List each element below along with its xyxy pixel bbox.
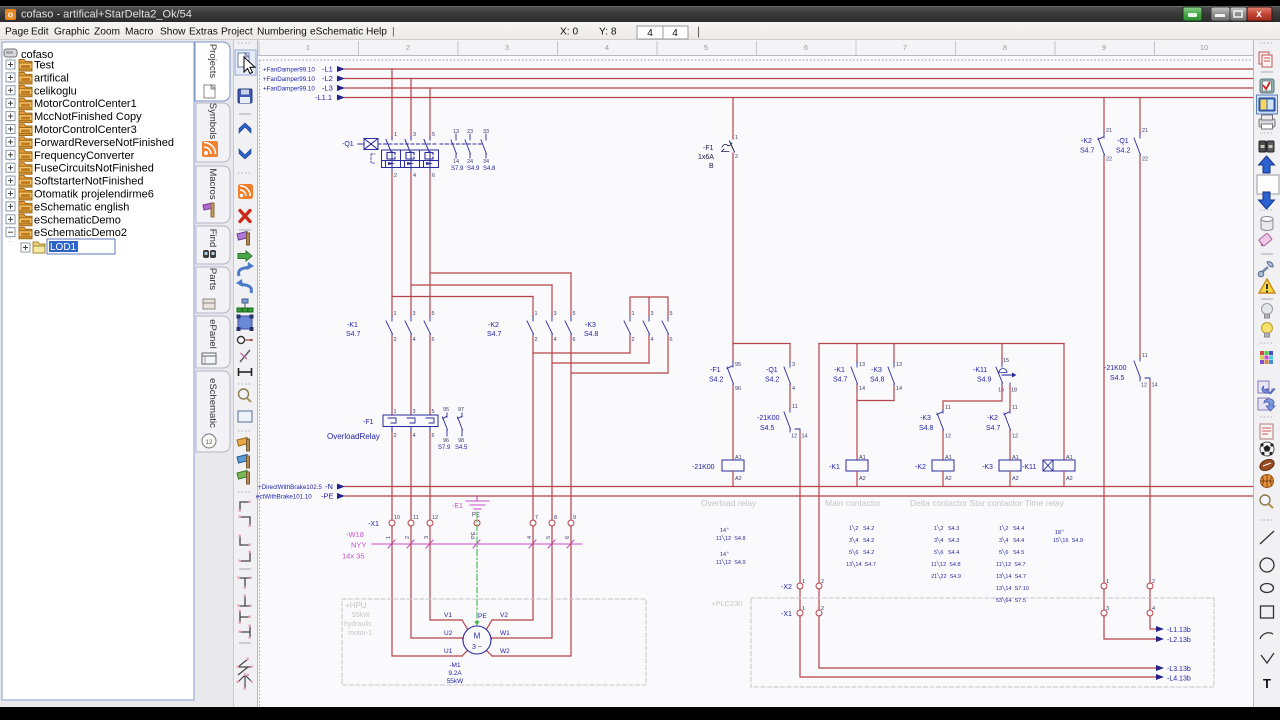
svg-text:1: 1 (802, 606, 805, 612)
svg-text:-L4.13b: -L4.13b (1167, 676, 1191, 683)
edit box with selected text LOD1 (47, 239, 115, 254)
flag orange (237, 438, 249, 447)
svg-text:2: 2 (406, 43, 410, 52)
shape tools (1260, 531, 1274, 544)
svg-text:3: 3 (792, 362, 795, 368)
thermal box (382, 150, 439, 168)
overload relay F1 (383, 413, 463, 436)
svg-text:53╲64 S7.5: 53╲64 S7.5 (996, 596, 1026, 604)
window buttons (1183, 7, 1202, 21)
wires K2 down to X1 (532, 336, 534, 520)
svg-text:5: 5 (546, 536, 552, 539)
magnifier (1260, 495, 1270, 505)
svg-text:13: 13 (896, 362, 902, 368)
branch K1 coil (856, 344, 858, 363)
svg-text:2: 2 (394, 173, 397, 179)
svg-text:Y: 8: Y: 8 (599, 27, 617, 38)
magnifier (239, 389, 249, 399)
svg-text:10: 10 (1200, 43, 1208, 52)
svg-text:-K1: -K1 (834, 367, 845, 374)
svg-text:-F1: -F1 (710, 367, 721, 374)
svg-text:6: 6 (432, 173, 435, 179)
svg-text:MccNotFinished Copy: MccNotFinished Copy (34, 111, 142, 123)
svg-text:22: 22 (1142, 157, 1148, 163)
svg-text:A2: A2 (1012, 476, 1019, 482)
terminal X2/X1 right pair (1101, 583, 1153, 616)
svg-text:eSchematicDemo2: eSchematicDemo2 (34, 227, 127, 239)
svg-text:13╲14 S7.10: 13╲14 S7.10 (996, 584, 1029, 592)
wire L3 to Q1 pin5 (429, 88, 431, 137)
aux contacts (443, 413, 463, 436)
svg-text:W1: W1 (500, 630, 510, 637)
coil K1 (846, 460, 868, 471)
svg-text:-Q1: -Q1 (766, 367, 778, 374)
svg-text:14: 14 (802, 434, 808, 440)
svg-text:5: 5 (432, 409, 435, 415)
svg-text:2: 2 (821, 579, 824, 585)
svg-text:A1: A1 (735, 455, 742, 461)
tree guide dotted line (9, 58, 11, 242)
svg-text:3: 3 (554, 311, 557, 317)
svg-text:3╲4 S4.4: 3╲4 S4.4 (999, 536, 1024, 544)
wire to K2 coil (942, 431, 944, 460)
svg-text:Edit: Edit (31, 27, 49, 38)
motor breaker Q1 (358, 137, 483, 172)
HPU dashed box (342, 599, 646, 685)
purple flag (237, 232, 249, 241)
svg-text:S4.8: S4.8 (483, 166, 496, 172)
svg-text:-F1: -F1 (363, 419, 374, 426)
contact K11 15-16/18 timed (996, 363, 1012, 386)
ruler (258, 40, 1253, 55)
svg-text:Overload relay: Overload relay (701, 498, 757, 508)
svg-text:-K3: -K3 (920, 415, 931, 422)
svg-text:11: 11 (413, 515, 419, 521)
svg-text:+HPU: +HPU (345, 601, 367, 610)
svg-text:3: 3 (413, 132, 416, 138)
svg-text:Help: Help (366, 27, 387, 38)
svg-text:21╲22 S4.9: 21╲22 S4.9 (931, 572, 961, 580)
dashed trip link (371, 154, 375, 163)
svg-text:1: 1 (306, 43, 310, 52)
svg-text:6: 6 (573, 337, 576, 343)
svg-text:5╲6 S4.2: 5╲6 S4.2 (849, 548, 874, 556)
svg-text:5: 5 (432, 132, 435, 138)
svg-text:34: 34 (483, 159, 489, 165)
svg-text:12: 12 (945, 434, 951, 440)
pin (240, 350, 250, 362)
svg-text:-K3: -K3 (982, 464, 993, 471)
svg-text:S4.7: S4.7 (487, 331, 502, 338)
svg-text:4: 4 (413, 173, 416, 179)
bus L1.1 (345, 97, 1253, 99)
org tree green (242, 299, 248, 303)
svg-text:13: 13 (453, 129, 459, 135)
right branch: Q1 aux 21-22 (1139, 98, 1141, 134)
svg-text:Otomatik projelendirme6: Otomatik projelendirme6 (34, 189, 154, 201)
Projects tab (active) (195, 42, 230, 101)
ePanel tab (196, 316, 230, 368)
svg-text:-L3.13b: -L3.13b (1167, 666, 1191, 673)
corner icons (240, 502, 250, 561)
svg-text:X: 0: X: 0 (560, 27, 578, 38)
bus L1 (345, 68, 1253, 70)
svg-text:12: 12 (432, 515, 438, 521)
svg-text:-X1: -X1 (781, 611, 792, 618)
svg-text:Macros: Macros (207, 168, 218, 199)
svg-text:2: 2 (394, 337, 397, 343)
svg-text:A2: A2 (735, 476, 742, 482)
Q1 aux contacts (451, 134, 487, 158)
floppy save (238, 89, 252, 103)
svg-text:-E1: -E1 (452, 503, 463, 510)
svg-text:96: 96 (443, 438, 449, 444)
svg-text:Project: Project (221, 27, 253, 38)
contact K3 11-12 (NC) (937, 410, 944, 433)
terminal strip X1 (389, 520, 574, 526)
svg-text:11: 11 (1142, 353, 1148, 359)
Find tab (196, 226, 230, 264)
menu bar (0, 22, 1280, 40)
Parts tab (196, 267, 230, 313)
svg-text:-L1.13b: -L1.13b (1167, 627, 1191, 634)
wire 16 jog to K3 NC (943, 386, 1002, 410)
svg-text:S4.2: S4.2 (765, 377, 780, 384)
svg-text:NYY: NYY (351, 541, 366, 550)
svg-text:-K11: -K11 (973, 367, 987, 374)
wire L1.1 to fuse F1 (732, 98, 734, 140)
svg-text:S4.7: S4.7 (986, 425, 1001, 432)
svg-text:-L1: -L1 (322, 65, 333, 74)
svg-text:Symbols: Symbols (207, 103, 218, 140)
svg-text:-M1: -M1 (449, 662, 461, 669)
svg-text:14: 14 (859, 386, 865, 392)
svg-text:PE: PE (472, 513, 480, 519)
outgoing arrows (1156, 626, 1164, 680)
svg-text:14: 14 (1152, 383, 1158, 389)
wire K1/K3 join to K1 coil (857, 386, 894, 460)
svg-text:-X2: -X2 (781, 584, 792, 591)
bulb gray (1262, 304, 1273, 315)
contactor K1 main contacts (386, 316, 431, 336)
wire L1 to Q1 pin1 (391, 69, 393, 137)
svg-text:S4.7: S4.7 (833, 377, 848, 384)
svg-text:-K2: -K2 (987, 415, 998, 422)
svg-text:23: 23 (467, 129, 473, 135)
svg-text:3: 3 (413, 409, 416, 415)
svg-text:14x 35: 14x 35 (342, 552, 365, 561)
white box (1257, 175, 1279, 194)
svg-text:1: 1 (535, 311, 538, 317)
coil K3 (999, 460, 1021, 471)
wire rail2 left end down (819, 344, 1156, 669)
svg-text:1: 1 (632, 311, 635, 317)
child row: plusbox (21, 243, 30, 252)
archive dark (1259, 141, 1266, 152)
svg-text:1╲2 S4.3: 1╲2 S4.3 (934, 524, 959, 532)
svg-text:4: 4 (672, 28, 678, 39)
svg-text:2: 2 (535, 337, 538, 343)
red doc copy (1259, 52, 1269, 64)
PE green conductor (476, 512, 478, 624)
svg-text:Graphic: Graphic (54, 27, 90, 38)
bus PE (345, 495, 1253, 497)
svg-text:15╲16 S4.9: 15╲16 S4.9 (1053, 536, 1083, 544)
wires F1 to X1 (392, 432, 430, 520)
svg-text:3: 3 (413, 311, 416, 317)
svg-text:11╲12 S4.8: 11╲12 S4.8 (931, 560, 961, 568)
top black strip (0, 0, 1280, 6)
svg-text:13╲14 S4.7: 13╲14 S4.7 (996, 572, 1026, 580)
svg-text:S4.5: S4.5 (1110, 375, 1125, 382)
svg-text:4: 4 (554, 337, 557, 343)
svg-text:motor-1: motor-1 (348, 630, 372, 637)
svg-text:T: T (1263, 676, 1271, 691)
eSchematic tab (196, 371, 230, 452)
PLC230 dashed box (751, 598, 1214, 687)
svg-text:S4.7: S4.7 (1080, 148, 1095, 155)
warning (1259, 279, 1275, 293)
svg-text:11: 11 (1012, 405, 1018, 411)
svg-text:-L2.13b: -L2.13b (1167, 637, 1191, 644)
blue curl 2 (240, 284, 251, 293)
blue curl 1 (239, 267, 250, 276)
svg-text:S4.9: S4.9 (977, 377, 992, 384)
svg-text:95: 95 (443, 407, 449, 413)
svg-text:U1: U1 (444, 648, 453, 655)
svg-text:9: 9 (573, 515, 576, 521)
svg-text:S7.9: S7.9 (438, 445, 451, 451)
TAB STRIP (195, 42, 230, 452)
contact K2 11-12 (NC) (1004, 410, 1011, 433)
wire 14 down to X2 (800, 432, 1156, 677)
svg-text:Show: Show (160, 27, 186, 38)
svg-text:3: 3 (651, 311, 654, 317)
svg-text:S4.5: S4.5 (455, 445, 468, 451)
svg-text:4: 4 (651, 337, 654, 343)
svg-text:W2: W2 (500, 648, 510, 655)
svg-text:-K2: -K2 (1081, 138, 1092, 145)
svg-text:+FanDamper99.10: +FanDamper99.10 (263, 76, 315, 83)
svg-text:SoftstarterNotFinished: SoftstarterNotFinished (34, 176, 143, 188)
wire L2 to Q1 pin3 (410, 79, 412, 138)
contact K1 13-14 (NO) (851, 362, 858, 388)
earth E1 (466, 497, 489, 509)
folder arrow 1 (1258, 381, 1269, 393)
svg-text:2: 2 (821, 606, 824, 612)
svg-text:S4.8: S4.8 (919, 425, 934, 432)
svg-text:2: 2 (735, 154, 738, 160)
red X (240, 211, 250, 222)
svg-text:55kW: 55kW (352, 612, 370, 619)
svg-text:A1: A1 (945, 455, 952, 461)
svg-text:9.2A: 9.2A (448, 670, 462, 677)
branch Q1 aux / 21K00 changeover (789, 344, 791, 363)
bottom black bar (0, 707, 1280, 720)
svg-text:S4.7: S4.7 (346, 331, 361, 338)
svg-text:-K2: -K2 (915, 464, 926, 471)
svg-text:-21K00: -21K00 (692, 464, 715, 471)
svg-text:13: 13 (859, 362, 865, 368)
svg-text:4: 4 (647, 28, 653, 39)
svg-text:1: 1 (394, 132, 397, 138)
svg-text:V2: V2 (500, 612, 508, 619)
bus L3 (345, 87, 1253, 89)
svg-text:S4.5: S4.5 (760, 425, 775, 432)
svg-text:1: 1 (802, 579, 805, 585)
cylinder (1261, 219, 1273, 231)
section labels (701, 498, 1065, 508)
svg-text:5: 5 (573, 311, 576, 317)
wrench (1260, 267, 1268, 274)
down chevron (239, 149, 251, 159)
red text doc (1260, 424, 1273, 439)
svg-text:1x6A: 1x6A (698, 154, 714, 161)
svg-text:-K1: -K1 (829, 464, 840, 471)
svg-text:-K2: -K2 (488, 322, 499, 329)
svg-text:LOD1: LOD1 (50, 242, 77, 253)
branch K11 timed contact (1001, 344, 1003, 364)
svg-text:9: 9 (1102, 43, 1106, 52)
wire fuse to rail (732, 153, 734, 362)
contact F1 95-96 (NC) (727, 362, 734, 388)
svg-text:Extras: Extras (189, 27, 218, 38)
svg-text:11╲12 S4.7: 11╲12 S4.7 (996, 560, 1026, 568)
svg-text:-W18: -W18 (346, 530, 364, 539)
bulb yellow (1262, 323, 1273, 334)
I-beam (238, 368, 252, 376)
T icons (239, 578, 251, 638)
svg-text:Find: Find (207, 229, 218, 247)
green arrow (238, 251, 252, 261)
up chevron (239, 123, 251, 133)
big down arrow (1259, 192, 1275, 209)
svg-text:ForwardReverseNotFinished: ForwardReverseNotFinished (34, 137, 174, 149)
svg-text:+FanDamper99.10: +FanDamper99.10 (263, 86, 315, 93)
diag icons (238, 659, 252, 689)
svg-text:|: | (392, 27, 395, 38)
RIGHT TOOLBAR (1253, 40, 1280, 707)
coil K11 (time relay) (1053, 460, 1075, 471)
root icon (4, 49, 17, 57)
svg-text:-K3: -K3 (585, 322, 596, 329)
svg-text:S4.8: S4.8 (870, 377, 885, 384)
svg-text:4: 4 (413, 337, 416, 343)
svg-text:1╲2 S4.4: 1╲2 S4.4 (999, 524, 1024, 532)
title bar (0, 6, 1280, 22)
printer (1259, 119, 1275, 127)
poles (386, 137, 430, 152)
svg-text:M: M (474, 632, 481, 641)
svg-text:10: 10 (394, 515, 400, 521)
svg-text:11: 11 (792, 404, 798, 410)
svg-text:-Q1: -Q1 (342, 141, 354, 148)
svg-text:14: 14 (896, 386, 902, 392)
folder arrow 2 (1258, 398, 1269, 410)
svg-text:14⌝: 14⌝ (720, 527, 729, 534)
svg-text:95: 95 (735, 362, 741, 368)
svg-text:A1: A1 (859, 455, 866, 461)
svg-text:12: 12 (1012, 434, 1018, 440)
svg-text:artifical: artifical (34, 72, 69, 84)
svg-text:5: 5 (704, 43, 708, 52)
svg-text:33: 33 (483, 129, 489, 135)
svg-text:2: 2 (394, 433, 397, 439)
svg-text:6: 6 (432, 433, 435, 439)
svg-text:B: B (709, 163, 714, 170)
svg-text:hydraulic: hydraulic (344, 621, 373, 628)
control rail 2 (819, 343, 1064, 345)
svg-text:S4.2: S4.2 (709, 377, 724, 384)
contactor K3 main contacts (624, 316, 669, 336)
wire rail2 right end to K11 coil (1063, 344, 1065, 461)
svg-text:16: 16 (998, 388, 1004, 394)
svg-text:4: 4 (527, 536, 533, 539)
svg-text:-Q1: -Q1 (1117, 138, 1129, 145)
coil 21K00 (722, 460, 744, 471)
basketball (1261, 475, 1274, 488)
cable W18 (372, 540, 582, 548)
svg-text:V1: V1 (444, 612, 452, 619)
svg-text:4: 4 (605, 43, 609, 52)
svg-text:+PLC230: +PLC230 (711, 599, 742, 608)
svg-text:6: 6 (670, 337, 673, 343)
svg-text:-X1: -X1 (368, 521, 379, 528)
svg-text:3: 3 (505, 43, 509, 52)
svg-text:5╲6 S4.5: 5╲6 S4.5 (999, 548, 1024, 556)
Symbols tab (196, 103, 230, 162)
flag blue (237, 455, 249, 464)
control rail 1 (733, 343, 790, 345)
svg-text:15: 15 (1003, 358, 1009, 364)
svg-text:A2: A2 (1066, 476, 1073, 482)
svg-text:5╲6 S4.4: 5╲6 S4.4 (934, 548, 959, 556)
svg-text:1╲2 S4.2: 1╲2 S4.2 (849, 524, 874, 532)
svg-text:6: 6 (804, 43, 808, 52)
svg-text:-F1: -F1 (703, 145, 714, 152)
right branch: K2 21-22 (1103, 98, 1105, 134)
football (1258, 457, 1276, 472)
svg-text:eSchematicDemo: eSchematicDemo (34, 214, 121, 226)
wires X1 to motor (392, 526, 571, 656)
svg-text:21: 21 (1106, 128, 1112, 134)
page border dashed (259, 59, 1253, 61)
svg-text:97: 97 (458, 407, 464, 413)
contact Q1 3-4 (NO) (784, 362, 791, 388)
check doc (1260, 79, 1274, 93)
svg-text:14⌝: 14⌝ (720, 551, 729, 558)
terminal X2 left pair (797, 583, 822, 616)
svg-text:1: 1 (394, 409, 397, 415)
wires Q1 to K1 (392, 172, 571, 316)
svg-text:Numbering: Numbering (257, 27, 307, 38)
svg-text:ePanel: ePanel (207, 319, 218, 349)
svg-text:8: 8 (554, 515, 557, 521)
pressed new-page button with cursor (235, 50, 256, 75)
svg-text:24: 24 (467, 159, 473, 165)
svg-text:96: 96 (735, 386, 741, 392)
svg-text:-21K00: -21K00 (757, 415, 780, 422)
svg-text:3: 3 (424, 536, 430, 539)
svg-text:MotorControlCenter1: MotorControlCenter1 (34, 98, 137, 110)
svg-text:OverloadRelay: OverloadRelay (327, 432, 380, 441)
color grid (1260, 351, 1273, 364)
svg-text:Test: Test (34, 60, 54, 72)
svg-text:11╲12 S4.9: 11╲12 S4.9 (716, 558, 746, 566)
svg-text:2: 2 (632, 337, 635, 343)
svg-text:3: 3 (1106, 606, 1109, 612)
wire contact to coil 21K00 (732, 386, 734, 460)
